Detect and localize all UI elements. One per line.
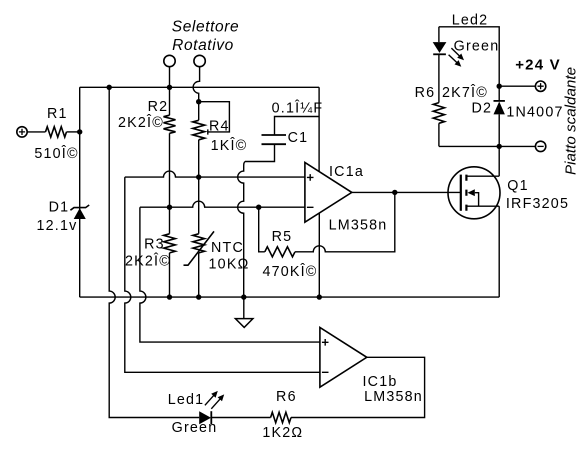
Q1 drain stub <box>466 175 499 177</box>
zener diode D1 <box>74 208 86 219</box>
svg-text:0.1Î¼F: 0.1Î¼F <box>272 100 324 117</box>
svg-text:R6: R6 <box>415 85 436 101</box>
LED Led2 <box>433 42 447 53</box>
svg-text:+24 V: +24 V <box>515 57 561 74</box>
node +24V <box>497 84 502 89</box>
svg-text:C1: C1 <box>288 130 309 146</box>
LED Led1 <box>199 411 211 424</box>
diode D2 <box>494 102 505 115</box>
svg-text:Led1: Led1 <box>168 392 205 408</box>
resistor R2 <box>164 115 176 133</box>
node bus/railB <box>107 85 112 90</box>
svg-text:IC1a: IC1a <box>329 164 364 180</box>
node bus/R2 <box>167 85 172 90</box>
svg-text:12.1v: 12.1v <box>37 218 78 234</box>
wire R2-R3 chain rail E <box>169 87 171 297</box>
svg-text:D2: D2 <box>471 100 492 116</box>
svg-text:470KÎ©: 470KÎ© <box>262 263 317 280</box>
capacitor C1 <box>262 135 287 144</box>
node R4 top <box>196 99 201 104</box>
svg-text:R6: R6 <box>276 389 297 405</box>
terminal heater minus <box>535 141 545 151</box>
wire heater minus row <box>439 145 535 147</box>
svg-text:IC1b: IC1b <box>363 374 398 390</box>
wire V+ pin drop of IC1a and C1 top branch <box>275 87 320 171</box>
wire C1 bottom to ground with hops <box>238 144 275 297</box>
node R4/NTC & IC1a+ <box>196 174 201 179</box>
resistor R4 <box>193 120 205 140</box>
resistor R6 bottom 1K2 <box>271 412 291 422</box>
svg-text:Rotativo: Rotativo <box>172 37 234 54</box>
transistor Q1 MOSFET body <box>448 167 500 219</box>
wire top supply bus V+ <box>80 86 319 88</box>
wire D2 leads <box>498 86 500 146</box>
svg-text:1N4007: 1N4007 <box>506 105 563 121</box>
svg-text:2K7Î©: 2K7Î© <box>442 84 488 101</box>
node R5 tap <box>256 205 261 210</box>
svg-text:Selettore: Selettore <box>172 18 239 35</box>
svg-text:Green: Green <box>454 39 500 55</box>
svg-text:LM358n: LM358n <box>364 389 423 405</box>
resistor R1 <box>46 127 67 137</box>
svg-text:IRF3205: IRF3205 <box>506 196 569 212</box>
wire selector circle2 down with hop over bus <box>193 67 199 102</box>
node NTC/gnd <box>196 294 201 299</box>
wire Q1 drain up to negative heater terminal row <box>498 146 500 176</box>
resistor R3 <box>164 234 176 253</box>
wire IC1a output to Q1 gate <box>352 191 461 193</box>
selector terminal circle 2 <box>194 55 205 66</box>
ground <box>243 297 245 319</box>
svg-text:1K2Ω: 1K2Ω <box>262 425 303 441</box>
node heater minus <box>497 144 502 149</box>
svg-text:LM358n: LM358n <box>329 218 388 234</box>
node R2/R3 & IC1a- <box>167 205 172 210</box>
node C1/gnd <box>241 294 246 299</box>
op-amp IC1a <box>305 162 352 222</box>
svg-text:510Î©: 510Î© <box>34 145 78 162</box>
wire IC1a - input <box>140 201 305 207</box>
svg-text:NTC: NTC <box>211 240 244 256</box>
wire R4-NTC chain rail F <box>198 102 200 297</box>
wire R5 feedback loop <box>259 192 395 251</box>
wire left rail through R1 node and D1 <box>79 87 81 297</box>
terminal input plus (left) <box>17 127 27 137</box>
svg-text:R3: R3 <box>144 236 165 252</box>
wire ground bus <box>80 296 500 298</box>
wire rail C : IC1a + node down to IC1b - input <box>125 177 320 372</box>
thermistor NTC <box>193 234 205 253</box>
wire IC1a V- pin to ground <box>318 213 320 297</box>
op-amp IC1b <box>320 327 367 387</box>
wire rail D : IC1a - node down to IC1b + input <box>140 207 320 342</box>
svg-text:1KÎ©: 1KÎ© <box>211 137 248 154</box>
svg-text:D1: D1 <box>49 200 70 216</box>
svg-text:Green: Green <box>172 420 218 436</box>
svg-text:2K2Î©: 2K2Î© <box>125 253 171 270</box>
svg-text:Q1: Q1 <box>507 178 528 194</box>
Q1 body arrow <box>468 189 475 196</box>
wire Q1 source to ground bus <box>498 206 500 297</box>
resistor R6 top 2K7 <box>433 103 444 124</box>
svg-text:2K2Î©: 2K2Î© <box>118 114 164 131</box>
svg-text:R1: R1 <box>47 106 68 122</box>
wire R4 trimmer bracket <box>199 102 230 135</box>
svg-text:Piatto scaldante: Piatto scaldante <box>563 67 580 175</box>
node IC1a out <box>392 190 397 195</box>
svg-text:R2: R2 <box>148 99 169 115</box>
wire IC1b output loop to R6 Led1 row <box>211 357 424 417</box>
wire rail B from V+ bus to Led1 row <box>109 87 199 417</box>
svg-text:10KΩ: 10KΩ <box>209 257 250 273</box>
Q1 channel dashes <box>465 175 467 211</box>
wire heater plus row <box>499 85 535 87</box>
wire IC1a + input <box>125 171 305 177</box>
node R3/gnd <box>167 294 172 299</box>
svg-text:R5: R5 <box>272 229 293 245</box>
selector terminal circle 1 <box>164 55 175 66</box>
Q1 source stub <box>466 205 499 207</box>
Q1 gate bar <box>460 175 462 211</box>
terminal heater plus <box>535 81 545 91</box>
node R1 right junction <box>77 129 82 134</box>
svg-text:Led2: Led2 <box>452 13 489 29</box>
wire selector circle1 to bus <box>169 67 171 88</box>
wire Led2 top loop <box>439 27 499 147</box>
resistor R5 <box>265 247 295 257</box>
svg-text:R4: R4 <box>209 118 230 134</box>
node IC1a V-/gnd <box>317 294 322 299</box>
